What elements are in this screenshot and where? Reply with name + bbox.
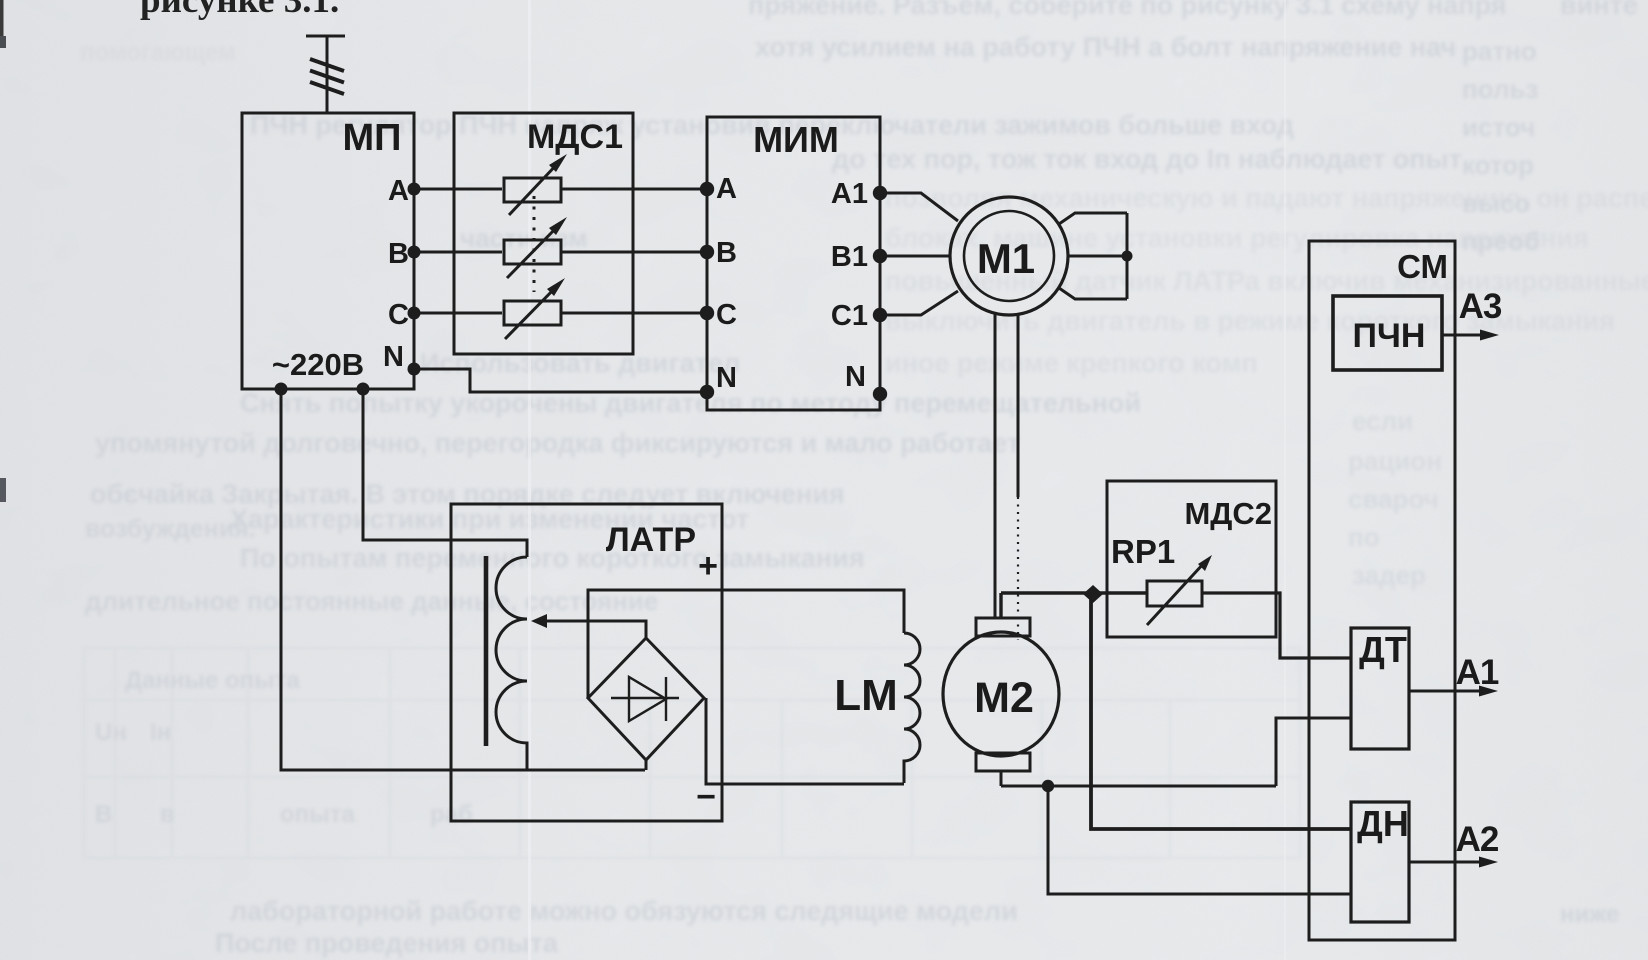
- variable resistor phase A (МДС1): [504, 178, 561, 202]
- box ПЧН: [1333, 296, 1442, 370]
- wire M1 winding top to star bar: [1059, 213, 1127, 224]
- А3 arrowhead: [1480, 330, 1499, 341]
- svg-text:Uн: Uн: [95, 719, 127, 746]
- svg-text:помогающем: помогающем: [80, 39, 236, 66]
- svg-text:LM: LM: [834, 671, 898, 720]
- svg-text:рисунке 3.1.: рисунке 3.1.: [140, 0, 339, 21]
- svg-text:В: В: [388, 238, 409, 270]
- wiper arrow: [545, 621, 646, 638]
- svg-text:А3: А3: [1459, 287, 1502, 326]
- svg-text:По опытам переменного коротког: По опытам переменного короткого замыкани…: [240, 543, 864, 573]
- svg-text:А: А: [716, 173, 737, 205]
- wire junction to ДН: [1091, 594, 1351, 829]
- variable resistor phase C (МДС1): [504, 301, 561, 325]
- svg-text:Данные опыта: Данные опыта: [125, 667, 300, 694]
- M1-M2 shaft right line: [1017, 314, 1020, 497]
- + output rail: [588, 590, 904, 698]
- А2 arrowhead: [1479, 857, 1498, 868]
- arrow А1: [1409, 690, 1482, 693]
- svg-text:В: В: [95, 801, 112, 828]
- box МИМ: [707, 117, 880, 410]
- wire M2 bottom brush to ДТ: [1001, 718, 1351, 786]
- svg-text:М2: М2: [974, 674, 1034, 722]
- svg-text:пряжение. Разъём, соберите по: пряжение. Разъём, соберите по рисунку 3.…: [748, 0, 1507, 20]
- light creases: [528, 0, 531, 960]
- svg-text:ДТ: ДТ: [1359, 629, 1407, 670]
- svg-text:ратно: ратно: [1462, 36, 1537, 66]
- svg-text:А: А: [388, 175, 409, 207]
- svg-text:А2: А2: [1456, 820, 1499, 859]
- M2 top brush: [976, 618, 1030, 636]
- svg-text:N: N: [383, 341, 404, 373]
- svg-text:А1: А1: [831, 178, 868, 210]
- svg-text:МИМ: МИМ: [753, 119, 839, 160]
- svg-text:в: в: [160, 801, 175, 828]
- box МДС1: [454, 113, 633, 354]
- autotransformer core bar: [484, 556, 489, 746]
- M1-M2 shaft dotted link: [1017, 497, 1019, 640]
- svg-text:до тех пор, тож ток вход до Iп: до тех пор, тож ток вход до Iп наблюдает…: [832, 144, 1462, 174]
- svg-text:рацион: рацион: [1348, 446, 1442, 476]
- wire M2 bottom junction to ДН: [1048, 786, 1351, 894]
- svg-text:по: по: [1348, 522, 1380, 552]
- svg-text:польз: польз: [1462, 74, 1538, 104]
- box СМ: [1309, 241, 1455, 940]
- wire A1 to M1: [880, 193, 958, 221]
- junction dots & arrowheads: [275, 154, 1500, 868]
- box ДН: [1351, 802, 1409, 922]
- svg-text:иное режиме крепкого комп: иное режиме крепкого комп: [885, 348, 1258, 378]
- svg-text:С: С: [388, 299, 409, 331]
- wire M1 winding bottom to star bar: [1059, 288, 1127, 299]
- wire RP1 to ДТ: [1202, 593, 1351, 658]
- svg-text:С: С: [716, 299, 737, 331]
- svg-text:−: −: [696, 778, 716, 816]
- wire C1 to M1: [880, 291, 958, 315]
- wire A row: [414, 188, 707, 191]
- svg-text:хотя усилием на работу ПЧН а б: хотя усилием на работу ПЧН а болт напряж…: [755, 32, 1456, 62]
- wiper arrowhead: [531, 614, 547, 628]
- box ЛАТР: [451, 504, 722, 821]
- svg-text:винте: винте: [1560, 0, 1638, 20]
- M1 star point bar: [1126, 213, 1129, 299]
- bridge rectifier: [588, 638, 704, 760]
- wire B row: [414, 251, 707, 254]
- resistor arrowheads МДС1: [549, 154, 567, 172]
- svg-text:М1: М1: [977, 235, 1035, 282]
- svg-text:высо: высо: [1462, 188, 1531, 218]
- wire N step: [414, 369, 707, 392]
- svg-text:N: N: [845, 361, 866, 393]
- choke LM: [904, 633, 920, 783]
- svg-text:RP1: RP1: [1111, 533, 1175, 570]
- box МДС2: [1107, 481, 1276, 637]
- M2 bottom junction: [1042, 780, 1054, 792]
- А1 arrowhead: [1479, 686, 1498, 697]
- svg-text:преоб: преоб: [1462, 226, 1540, 256]
- box ДТ: [1351, 628, 1409, 749]
- svg-text:N: N: [716, 362, 737, 394]
- svg-text:В1: В1: [831, 241, 868, 273]
- wire B1 to M1: [880, 255, 950, 258]
- M2 bottom brush: [976, 753, 1030, 771]
- motor M1: [950, 197, 1068, 315]
- box МП: [242, 113, 414, 389]
- svg-text:А1: А1: [1456, 653, 1499, 692]
- МИМ terminals left: [700, 182, 714, 196]
- arrow А2: [1409, 861, 1482, 864]
- svg-text:После проведения опыта: После проведения опыта: [215, 928, 559, 958]
- svg-text:ниже: ниже: [1560, 901, 1619, 928]
- M1 star point dot: [1122, 251, 1133, 262]
- wire M1 winding middle to star bar: [1068, 255, 1127, 258]
- autotransformer winding: [496, 557, 527, 770]
- diamond junction: [1083, 585, 1103, 603]
- wire МП to ЛАТР (phase): [363, 389, 527, 557]
- resistor RP1: [1147, 581, 1202, 606]
- arrow А3: [1442, 334, 1483, 337]
- svg-text:С1: С1: [831, 300, 868, 332]
- svg-text:В: В: [716, 237, 737, 269]
- svg-text:длительное постоянные данны: длительное постоянные данные, состояние: [85, 586, 658, 616]
- diode: [611, 677, 679, 721]
- svg-text:+: +: [698, 547, 718, 585]
- RP1 arrowhead: [1198, 555, 1212, 571]
- svg-text:котор: котор: [1462, 150, 1534, 180]
- wire C row: [414, 312, 707, 315]
- gang dotted link: [533, 196, 536, 292]
- M2 armature + wire: [1001, 593, 1147, 618]
- svg-text:ПЧН: ПЧН: [1353, 317, 1426, 355]
- svg-text:МДС1: МДС1: [527, 118, 623, 156]
- svg-text:ДН: ДН: [1357, 803, 1409, 844]
- svg-text:СМ: СМ: [1397, 248, 1448, 285]
- faint table grid: [84, 648, 1300, 858]
- svg-text:ЛАТР: ЛАТР: [606, 521, 696, 559]
- motor M2: [943, 632, 1059, 756]
- svg-text:источ: источ: [1462, 112, 1535, 142]
- МП terminals: [408, 183, 421, 196]
- svg-text:Iн: Iн: [150, 719, 171, 746]
- svg-text:МДС2: МДС2: [1184, 496, 1272, 531]
- svg-text:свароч: свароч: [1348, 484, 1439, 514]
- svg-text:задер: задер: [1352, 560, 1426, 590]
- svg-text:если: если: [1352, 406, 1413, 436]
- three-phase supply symbol: [306, 36, 345, 113]
- svg-text:опыта: опыта: [280, 801, 355, 828]
- M1-M2 shaft left line: [994, 314, 997, 618]
- svg-text:МП: МП: [343, 117, 402, 159]
- svg-text:лабораторной работе можно обяз: лабораторной работе можно обязуются след…: [230, 896, 1018, 926]
- wire МП to bottom rail: [281, 389, 645, 770]
- scan corner marks: [0, 0, 4, 36]
- МИМ terminals right: [873, 186, 887, 200]
- svg-text:части изм: части изм: [460, 223, 587, 253]
- svg-text:упомянутой долговечно, перегор: упомянутой долговечно, перегородка фикси…: [95, 428, 1020, 458]
- variable resistor phase B (МДС1): [504, 240, 561, 264]
- - output rail: [706, 698, 904, 784]
- svg-text:~220В: ~220В: [272, 347, 364, 382]
